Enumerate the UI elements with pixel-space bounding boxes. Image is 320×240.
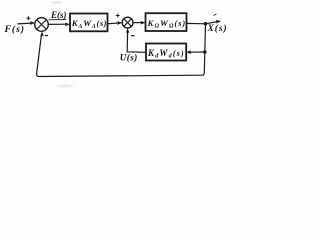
- wire S1 to block KA: [48, 23, 70, 27]
- wire outer feedback: X node down, along bottom, up into S1: [37, 31, 205, 76]
- plus sign at S2: [116, 14, 120, 18]
- node E(s) label: [49, 10, 67, 20]
- wire S2 to block KD: [133, 21, 146, 25]
- node F(s) input label: [4, 24, 25, 35]
- scan smudge bottom: [56, 85, 74, 88]
- wire input to summing junction S1: [18, 21, 36, 25]
- wire block Kd to S2 (left then up): [126, 28, 146, 52]
- svg-text:E(s): E(s): [50, 10, 67, 20]
- svg-text:U(s): U(s): [120, 52, 138, 62]
- summing junction S1: [35, 18, 49, 32]
- summing junction S2: [122, 17, 133, 28]
- svg-text:F(s): F(s): [4, 24, 25, 35]
- block U1 KA WA(s) amplifier: [70, 14, 108, 32]
- wire X node down to tacho branch: [204, 24, 207, 52]
- node U(s) label: [120, 52, 138, 62]
- svg-text:X(s): X(s): [207, 23, 228, 34]
- svg-text:KdWd(s): KdWd(s): [147, 48, 185, 60]
- wire branch into block Kd (right to left): [186, 50, 205, 54]
- svg-text:KΩWΩ(s): KΩWΩ(s): [147, 18, 187, 30]
- svg-text:KAWA(s): KAWA(s): [71, 18, 107, 30]
- junction dot at tacho branch: [203, 50, 207, 54]
- minus sign at S1 lower input: [45, 35, 48, 37]
- block U3 Kd Wd(s) feedback: [146, 44, 186, 61]
- wire block KA to summing junction S2: [108, 21, 123, 25]
- minus sign at S2 lower input: [131, 35, 134, 37]
- wire block KD to node X: [187, 22, 206, 24]
- scan smudge top: [51, 1, 63, 4]
- block U2 KD WD(s) motor: [146, 13, 187, 31]
- node X(s) output label: [207, 23, 228, 34]
- node X branch dot: [204, 22, 208, 26]
- wire output arrow X(s): [206, 14, 222, 24]
- plus sign at S1: [26, 16, 30, 20]
